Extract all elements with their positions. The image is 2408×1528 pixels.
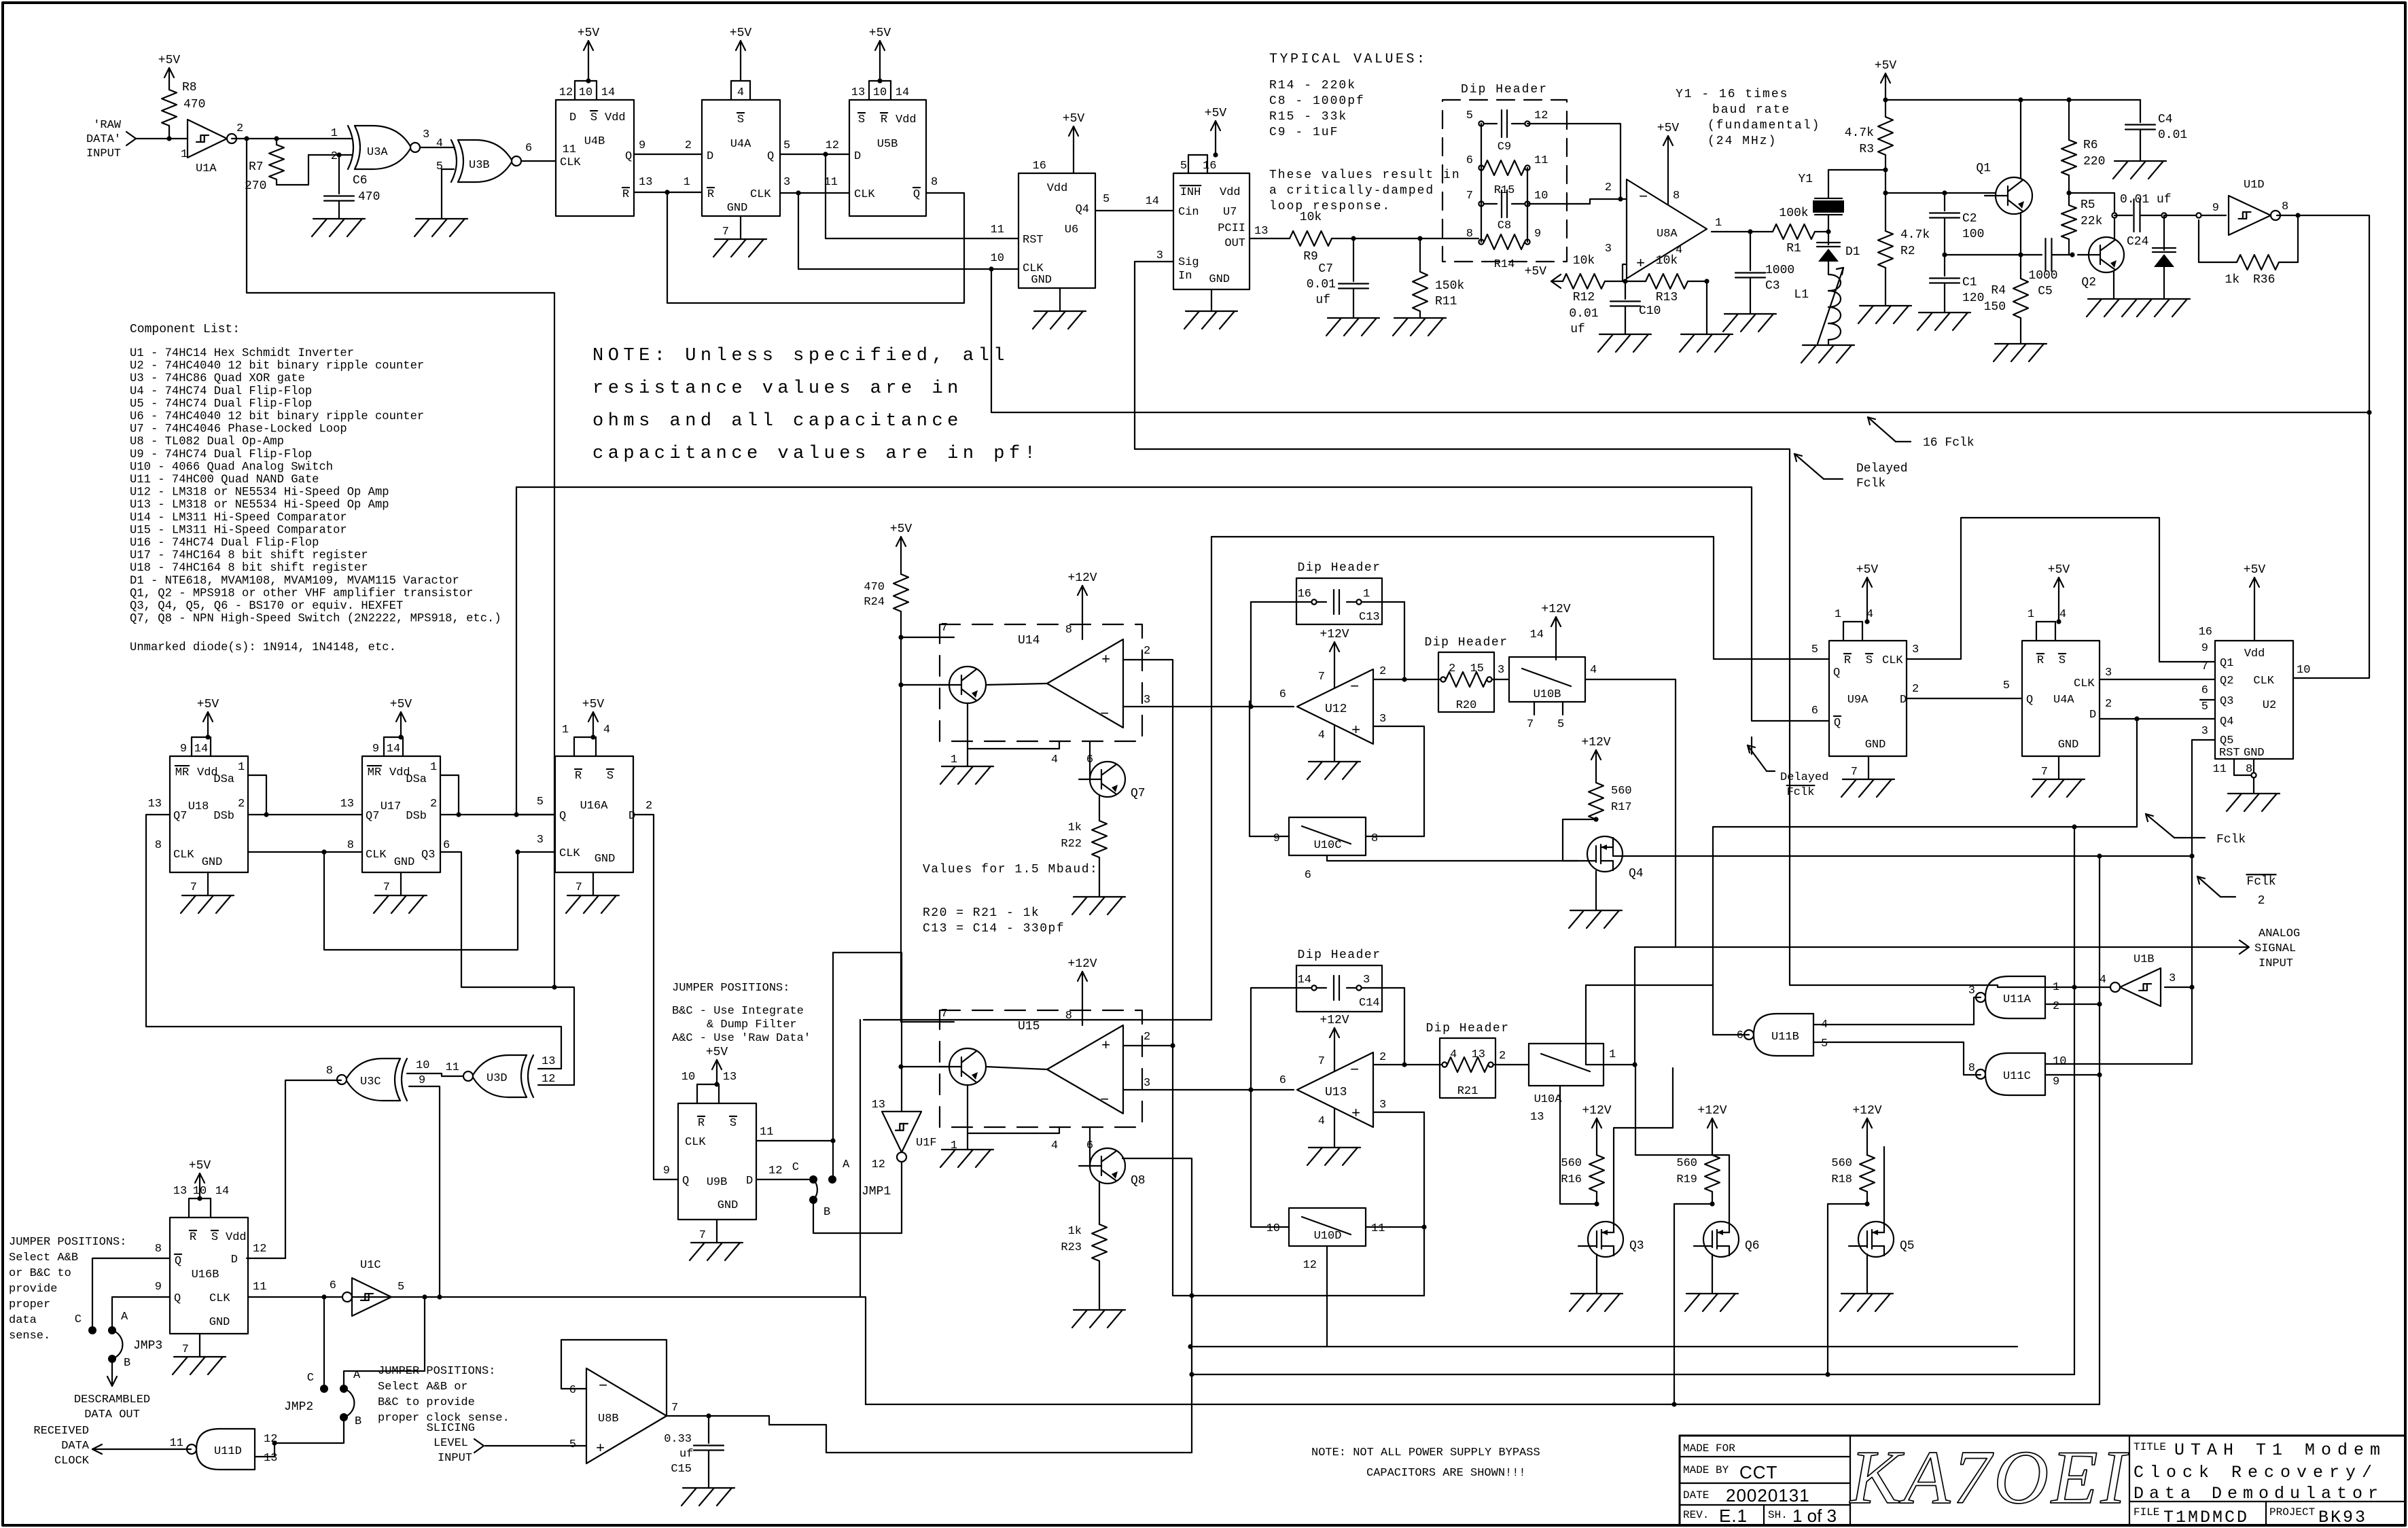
svg-text:Fclk: Fclk bbox=[1787, 786, 1815, 799]
pin 2 label U8A bbox=[1605, 181, 1612, 194]
svg-text:3: 3 bbox=[2201, 725, 2208, 738]
svg-text:14: 14 bbox=[601, 86, 615, 99]
svg-text:7: 7 bbox=[941, 1008, 948, 1020]
svg-text:−: − bbox=[599, 1378, 607, 1395]
ground (U13) bbox=[1307, 1148, 1360, 1165]
svg-text:1000: 1000 bbox=[2028, 269, 2057, 283]
crystal Y1 bbox=[1798, 170, 1844, 232]
svg-text:12: 12 bbox=[768, 1165, 782, 1177]
svg-text:5: 5 bbox=[569, 1438, 576, 1451]
svg-text:3: 3 bbox=[1605, 243, 1612, 255]
svg-text:C: C bbox=[75, 1313, 82, 1326]
label 5 (U16A Q) bbox=[537, 796, 544, 809]
label 3 (U14 out-) bbox=[1144, 694, 1254, 709]
svg-text:6: 6 bbox=[1279, 688, 1286, 701]
ground (C7) bbox=[1326, 318, 1379, 336]
wire Y1 top to R3/R2 node bbox=[1828, 169, 1885, 171]
wire U16A D to U9B Q bbox=[633, 815, 678, 1179]
label Delayed Fclk (trunk) bbox=[1794, 454, 1908, 491]
svg-text:R20 = R21 - 1k: R20 = R21 - 1k bbox=[923, 906, 1040, 920]
ground (U14 pin1) bbox=[940, 754, 993, 784]
svg-text:Q: Q bbox=[175, 1255, 181, 1268]
svg-text:Data Demodulator: Data Demodulator bbox=[2133, 1484, 2384, 1504]
svg-text:7: 7 bbox=[1527, 718, 1534, 731]
ground (U9B) bbox=[690, 1220, 743, 1260]
wire U14 base feed bbox=[901, 684, 949, 686]
svg-text:2: 2 bbox=[1144, 1031, 1150, 1044]
shift register U17 bbox=[340, 737, 450, 872]
svg-text:R20: R20 bbox=[1456, 699, 1477, 712]
wire U1A out to XOR U3A bbox=[232, 138, 352, 139]
label 3 (R20 out) bbox=[1498, 664, 1504, 677]
svg-text:13: 13 bbox=[542, 1055, 555, 1068]
svg-text:3: 3 bbox=[1363, 974, 1370, 987]
wire U16B Qbar to JMP3 C bbox=[92, 1258, 170, 1330]
wire Q-net to U6 RST bbox=[826, 154, 1019, 238]
wire U14 pin1 to pin4 bbox=[968, 741, 1059, 749]
svg-text:GND: GND bbox=[1865, 739, 1886, 751]
svg-text:U6 - 74HC4040 12 bit binary ri: U6 - 74HC4040 12 bit binary ripple count… bbox=[130, 410, 424, 423]
svg-text:10k: 10k bbox=[1656, 254, 1678, 268]
power +12V (U13) bbox=[1318, 1014, 1349, 1071]
svg-text:11: 11 bbox=[563, 143, 576, 156]
svg-text:3: 3 bbox=[537, 834, 544, 847]
label 2 (U14 out+) bbox=[1144, 645, 1150, 658]
xor gate U3A bbox=[331, 126, 429, 169]
svg-text:11: 11 bbox=[170, 1437, 183, 1450]
power +5V (U5B) bbox=[869, 26, 891, 84]
wire Q8 emitter to R23 bbox=[1099, 1182, 1100, 1224]
svg-text:R3: R3 bbox=[1859, 143, 1874, 156]
transistor Q8 bbox=[1079, 1148, 1146, 1188]
resistor R14 bbox=[1466, 228, 1541, 271]
label 6 (U14 pin6) bbox=[1086, 753, 1093, 766]
svg-text:13: 13 bbox=[723, 1071, 737, 1084]
note jumper positions (JMP1) bbox=[672, 982, 811, 1045]
svg-text:DATA OUT: DATA OUT bbox=[84, 1408, 140, 1421]
svg-text:R: R bbox=[707, 188, 714, 201]
svg-text:NOTE: Unless specified, all: NOTE: Unless specified, all bbox=[592, 346, 1009, 366]
power +5V (U17) bbox=[390, 698, 412, 740]
svg-text:uf: uf bbox=[1315, 294, 1330, 307]
label 4 (U12 gnd) bbox=[1318, 729, 1325, 742]
svg-text:Q3, Q4, Q5, Q6 - BS170 or equi: Q3, Q4, Q5, Q6 - BS170 or equiv. HEXFET bbox=[130, 600, 403, 613]
svg-text:220: 220 bbox=[2083, 155, 2105, 168]
capacitor C24 bbox=[2120, 193, 2172, 249]
svg-text:R4: R4 bbox=[1991, 284, 2006, 298]
svg-text:C24: C24 bbox=[2127, 235, 2148, 249]
junction R11 tap bbox=[1417, 236, 1422, 241]
svg-text:These values result in: These values result in bbox=[1269, 168, 1461, 182]
resistor R20 (zig) bbox=[1446, 672, 1487, 687]
svg-text:U12 - LM318 or NE5534 Hi-Speed: U12 - LM318 or NE5534 Hi-Speed Op Amp bbox=[130, 486, 389, 499]
svg-text:U11B: U11B bbox=[1771, 1031, 1799, 1044]
wire U8B minus loop bbox=[561, 1340, 667, 1416]
svg-text:4: 4 bbox=[2100, 974, 2106, 987]
svg-text:U10D: U10D bbox=[1314, 1230, 1342, 1243]
svg-text:U11D: U11D bbox=[214, 1445, 242, 1458]
svg-text:Q4: Q4 bbox=[1076, 203, 1089, 216]
svg-text:U6: U6 bbox=[1065, 224, 1078, 236]
switch U10A bbox=[1529, 1044, 1616, 1124]
power +12V (U10B) bbox=[1530, 603, 1571, 660]
svg-text:D: D bbox=[746, 1175, 753, 1188]
logo KA7OEI bbox=[1849, 1436, 2129, 1520]
svg-text:4: 4 bbox=[1318, 729, 1325, 742]
svg-text:2: 2 bbox=[236, 122, 243, 135]
svg-text:Q: Q bbox=[682, 1175, 689, 1188]
wire Q6 drain link bbox=[1635, 1065, 1729, 1223]
resistor R23 bbox=[1061, 1224, 1107, 1310]
svg-text:13: 13 bbox=[173, 1185, 187, 1198]
svg-text:2: 2 bbox=[1379, 665, 1386, 678]
wire Q6 source gnd bbox=[1712, 1254, 1713, 1294]
op-amp U8B bbox=[569, 1368, 678, 1463]
wire U10D left link bbox=[1251, 1090, 1289, 1227]
ground (U4A) bbox=[713, 216, 766, 257]
svg-text:Q8: Q8 bbox=[1131, 1174, 1146, 1188]
capacitor C1 bbox=[1930, 255, 1984, 313]
wire trunk y1501 bbox=[864, 1019, 1211, 1020]
transistor Q3 (MOSFET) bbox=[1578, 1222, 1644, 1257]
svg-text:R11: R11 bbox=[1435, 295, 1457, 308]
wire R24 down to U15 bbox=[901, 637, 954, 1022]
junction U14 base bbox=[898, 682, 903, 687]
svg-text:4: 4 bbox=[1590, 664, 1597, 677]
wire U11A pin1 wire bbox=[2045, 987, 2110, 988]
svg-text:+5V: +5V bbox=[1063, 112, 1085, 126]
svg-text:4: 4 bbox=[1051, 1139, 1058, 1152]
svg-text:Q1, Q2 - MPS918 or other VHF a: Q1, Q2 - MPS918 or other VHF amplifier t… bbox=[130, 587, 473, 600]
label pin7 U14 bbox=[941, 622, 948, 635]
svg-text:7: 7 bbox=[1318, 1055, 1325, 1068]
svg-text:U2 - 74HC4040 12 bit binary ri: U2 - 74HC4040 12 bit binary ripple count… bbox=[130, 360, 424, 373]
resistor R2 bbox=[1878, 228, 1930, 306]
junction V2/Fclk2 bbox=[2097, 853, 2102, 858]
inverter U1F bbox=[872, 1099, 937, 1171]
wire U8A plus input bbox=[1623, 264, 1627, 281]
power +5V (U16B) bbox=[189, 1159, 211, 1201]
svg-text:Component List:: Component List: bbox=[130, 323, 240, 336]
svg-text:Q: Q bbox=[559, 810, 566, 823]
svg-text:+12V: +12V bbox=[1581, 736, 1610, 749]
svg-text:270: 270 bbox=[245, 179, 266, 193]
wire Fclk trunk bbox=[1713, 719, 2137, 827]
svg-text:7: 7 bbox=[671, 1402, 678, 1415]
svg-text:+5V: +5V bbox=[1856, 563, 1879, 577]
svg-text:7: 7 bbox=[1851, 766, 1858, 779]
wire U18 CLK to U17 CLK bbox=[248, 851, 362, 853]
svg-text:Q: Q bbox=[625, 150, 632, 163]
wire U11A out bbox=[1974, 997, 1981, 1025]
svg-text:1: 1 bbox=[2028, 608, 2034, 621]
resistor R24 bbox=[864, 522, 912, 637]
ground (U8A pin4) bbox=[1680, 281, 1733, 352]
pll U7 bbox=[1156, 155, 1269, 289]
svg-text:C10: C10 bbox=[1639, 304, 1661, 318]
wire U9A Q left (delayed fclk) bbox=[1211, 537, 1829, 659]
wire Q4 drain trunk (Fclk/2) bbox=[1613, 838, 2192, 856]
svg-text:Fclk: Fclk bbox=[2216, 833, 2246, 847]
svg-text:baud rate: baud rate bbox=[1712, 103, 1790, 117]
svg-text:2: 2 bbox=[2105, 698, 2112, 711]
diode D1 (varactor) bbox=[1817, 232, 1860, 274]
junction Q5 gate trunk bbox=[1825, 1372, 1830, 1376]
wire U16A-Q to U9A trunk bbox=[516, 487, 1829, 721]
wire C13 right loop bbox=[1362, 601, 1404, 603]
svg-text:11: 11 bbox=[824, 176, 838, 189]
junction V2/pin2 bbox=[2097, 1001, 2102, 1006]
svg-text:DATA': DATA' bbox=[86, 133, 121, 146]
svg-text:R15 - 33k: R15 - 33k bbox=[1269, 110, 1347, 124]
wire JMP2 B to U11D bbox=[275, 1421, 344, 1443]
svg-text:6: 6 bbox=[2201, 684, 2208, 697]
svg-text:4: 4 bbox=[1051, 753, 1058, 766]
svg-text:SIGNAL: SIGNAL bbox=[2254, 942, 2296, 955]
svg-text:16: 16 bbox=[1298, 588, 1311, 601]
junction 1982 left bbox=[1188, 1344, 1192, 1349]
svg-text:D: D bbox=[707, 150, 713, 163]
junction rail R3 bbox=[1883, 97, 1888, 102]
ground (R22) bbox=[1072, 897, 1125, 914]
svg-text:3: 3 bbox=[1144, 694, 1150, 707]
wire R3 node down to R2 bbox=[1885, 170, 1886, 231]
junction Q1 base node bbox=[1883, 190, 1888, 195]
svg-text:L1: L1 bbox=[1794, 288, 1809, 302]
svg-text:S: S bbox=[590, 111, 597, 124]
wire R21 out to U10A bbox=[1493, 1064, 1529, 1065]
svg-text:KA7OEI: KA7OEI bbox=[1849, 1436, 2129, 1520]
svg-text:2: 2 bbox=[2258, 894, 2265, 908]
svg-text:11: 11 bbox=[991, 224, 1004, 236]
ground (R4) bbox=[1994, 344, 2047, 361]
svg-text:8: 8 bbox=[1968, 1062, 1975, 1075]
wire U15 emitter to pin1 bbox=[967, 1085, 968, 1136]
svg-text:150: 150 bbox=[1984, 300, 2006, 314]
resistor R17 bbox=[1581, 736, 1631, 819]
capacitor C5 bbox=[2028, 238, 2072, 298]
wire Q2 emitter bbox=[2113, 271, 2114, 299]
svg-text:R13: R13 bbox=[1656, 291, 1678, 304]
svg-text:−: − bbox=[1350, 1062, 1359, 1079]
junction U3C9/CLK line bbox=[437, 1294, 442, 1299]
svg-text:S: S bbox=[1866, 654, 1873, 667]
svg-text:D: D bbox=[569, 111, 576, 124]
svg-text:CAPACITORS ARE SHOWN!!!: CAPACITORS ARE SHOWN!!! bbox=[1366, 1467, 1526, 1480]
wire U14 pin6 to Q7 bbox=[1089, 741, 1091, 763]
dip header (R21) bbox=[1426, 1022, 1509, 1098]
pin 14 label U7 Cin bbox=[1146, 195, 1159, 208]
svg-text:+12V: +12V bbox=[1852, 1104, 1881, 1118]
label 16 Fclk bbox=[1868, 417, 1975, 450]
label 3 (U16A CLK) bbox=[537, 834, 544, 847]
svg-text:13: 13 bbox=[639, 176, 652, 189]
power +12V (U15) bbox=[1065, 957, 1097, 1025]
wire vertical A-jumper bbox=[832, 953, 834, 1179]
svg-text:SLICING: SLICING bbox=[427, 1422, 475, 1435]
wire U3C out to U16B D bbox=[247, 1080, 341, 1258]
junction U10D loop bbox=[1421, 1224, 1426, 1229]
svg-text:U10A: U10A bbox=[1534, 1093, 1563, 1106]
inductor L1 bbox=[1794, 268, 1843, 345]
svg-text:U4B: U4B bbox=[584, 135, 605, 148]
svg-text:8: 8 bbox=[931, 176, 938, 189]
svg-text:U16A: U16A bbox=[580, 800, 609, 813]
svg-text:8: 8 bbox=[1065, 1010, 1072, 1023]
wire trunk 1783 vertical bbox=[1211, 537, 1212, 1020]
svg-text:U3A: U3A bbox=[367, 146, 388, 159]
wire U2 Q5 (Fclk/2) bbox=[2045, 740, 2215, 1064]
svg-text:Delayed: Delayed bbox=[1856, 462, 1908, 476]
svg-text:12: 12 bbox=[264, 1433, 277, 1446]
wire U12 pin2 to R20 bbox=[1373, 679, 1443, 680]
svg-text:sense.: sense. bbox=[9, 1330, 50, 1343]
svg-text:RST: RST bbox=[2219, 747, 2240, 760]
wire R1 to varactor node bbox=[1815, 231, 1828, 232]
svg-text:3: 3 bbox=[2169, 972, 2176, 985]
svg-text:U15 - LM311 Hi-Speed Comparato: U15 - LM311 Hi-Speed Comparator bbox=[130, 524, 347, 537]
svg-text:5: 5 bbox=[537, 796, 544, 809]
svg-text:U14 - LM311 Hi-Speed Comparato: U14 - LM311 Hi-Speed Comparator bbox=[130, 512, 347, 525]
ground (C6) bbox=[312, 219, 365, 236]
svg-text:470: 470 bbox=[864, 581, 885, 594]
svg-text:U14: U14 bbox=[1018, 634, 1040, 647]
svg-text:Q6: Q6 bbox=[1745, 1239, 1760, 1253]
svg-text:C2: C2 bbox=[1962, 212, 1977, 226]
svg-text:U1C: U1C bbox=[360, 1259, 381, 1272]
resistor R5 bbox=[2061, 193, 2102, 255]
wire U10C loop bbox=[1250, 701, 1289, 836]
svg-text:14: 14 bbox=[194, 743, 208, 756]
resistor R12 bbox=[1525, 254, 1605, 336]
wire U3D out to U3C in bbox=[407, 1073, 462, 1076]
svg-text:6: 6 bbox=[1466, 154, 1473, 167]
svg-text:560: 560 bbox=[1676, 1157, 1697, 1170]
svg-text:10: 10 bbox=[2297, 664, 2310, 677]
svg-text:Dip Header: Dip Header bbox=[1461, 83, 1548, 96]
svg-text:12: 12 bbox=[559, 86, 573, 99]
svg-text:4: 4 bbox=[1318, 1115, 1325, 1128]
svg-text:100k: 100k bbox=[1779, 207, 1808, 220]
svg-text:8: 8 bbox=[155, 1243, 162, 1256]
svg-text:GND: GND bbox=[209, 1316, 230, 1329]
svg-text:4: 4 bbox=[436, 137, 443, 150]
wire Q7 emitter to R22 bbox=[1099, 795, 1100, 821]
svg-text:14: 14 bbox=[387, 743, 400, 756]
svg-text:U8 - TL082 Dual Op-Amp: U8 - TL082 Dual Op-Amp bbox=[130, 436, 284, 448]
svg-text:Vdd: Vdd bbox=[896, 113, 917, 126]
svg-text:R: R bbox=[881, 113, 887, 126]
svg-text:1: 1 bbox=[1363, 588, 1370, 601]
svg-text:U9A: U9A bbox=[1847, 694, 1869, 707]
label 3 (U12 plus) bbox=[1379, 713, 1386, 726]
junction C6 top bbox=[336, 152, 341, 157]
wire U4A2 D to U2 Q4 bbox=[2100, 718, 2215, 719]
jumper JMP1 bbox=[809, 1158, 891, 1219]
svg-text:U11C: U11C bbox=[2003, 1070, 2031, 1083]
svg-text:13: 13 bbox=[1530, 1111, 1544, 1124]
svg-text:7: 7 bbox=[1466, 190, 1473, 202]
svg-text:U5B: U5B bbox=[877, 138, 898, 151]
ground (L1) bbox=[1801, 345, 1854, 363]
svg-text:GND: GND bbox=[727, 202, 748, 215]
svg-text:2: 2 bbox=[238, 798, 245, 811]
svg-text:D: D bbox=[628, 810, 635, 823]
svg-text:R: R bbox=[622, 188, 629, 201]
wire C13 right to node bbox=[1404, 602, 1405, 679]
inverter U1D bbox=[2212, 179, 2288, 235]
svg-text:Q7, Q8 - NPN High-Speed Switch: Q7, Q8 - NPN High-Speed Switch (2N2222, … bbox=[130, 613, 501, 626]
titleblock project bbox=[2269, 1506, 2367, 1527]
label 6 (U13 out) bbox=[1279, 1074, 1286, 1087]
ground (U3B pin5) bbox=[414, 219, 467, 236]
svg-text:Y1: Y1 bbox=[1798, 173, 1813, 186]
nand gate U11A bbox=[1968, 976, 2059, 1018]
svg-text:DSa: DSa bbox=[406, 773, 427, 786]
wire U1B in bbox=[2165, 987, 2192, 988]
wire U17 DSa loop bbox=[440, 775, 459, 815]
wire U6 Q4 to U7 Cin bbox=[1095, 210, 1173, 211]
ground (C4) bbox=[2113, 161, 2166, 179]
wire integrate select jog bbox=[1586, 984, 1713, 986]
label 1 (U15) bbox=[951, 1139, 957, 1152]
power +5V (U4B) bbox=[578, 26, 600, 84]
label 3 (U15 out-) bbox=[1144, 1077, 1254, 1092]
junction R19/Q6 gate bbox=[1710, 1201, 1714, 1206]
svg-text:2: 2 bbox=[1605, 181, 1612, 194]
svg-text:R: R bbox=[575, 770, 582, 783]
svg-text:INPUT: INPUT bbox=[2259, 957, 2293, 970]
svg-text:proper: proper bbox=[9, 1298, 50, 1311]
svg-text:E.1: E.1 bbox=[1719, 1506, 1748, 1526]
svg-text:Q5: Q5 bbox=[1900, 1239, 1915, 1253]
flip-flop U5B bbox=[824, 81, 938, 216]
svg-text:4.7k: 4.7k bbox=[1900, 228, 1930, 242]
ground (U6) bbox=[1033, 288, 1086, 329]
svg-text:GND: GND bbox=[2244, 747, 2265, 760]
svg-text:R: R bbox=[698, 1117, 705, 1130]
junction U9B CLK / A bbox=[830, 1138, 835, 1143]
svg-text:R24: R24 bbox=[864, 596, 885, 609]
arrow descrambled out bbox=[107, 1363, 117, 1386]
svg-text:R12: R12 bbox=[1573, 291, 1595, 304]
svg-text:Sig: Sig bbox=[1178, 256, 1199, 269]
svg-text:1: 1 bbox=[331, 127, 338, 140]
inverter U1C (bubble-in) bbox=[330, 1259, 404, 1316]
resistor R19 bbox=[1676, 1104, 1727, 1204]
svg-text:+5V: +5V bbox=[1875, 59, 1897, 73]
svg-text:REV.: REV. bbox=[1683, 1509, 1709, 1521]
svg-text:INH: INH bbox=[1180, 186, 1201, 199]
junction U4B R net bbox=[665, 190, 669, 194]
wire U3B out to U4B CLK bbox=[521, 160, 556, 162]
svg-text:16: 16 bbox=[1203, 160, 1216, 173]
wire U8B out bbox=[667, 1415, 769, 1417]
svg-text:JMP2: JMP2 bbox=[284, 1400, 313, 1414]
wire U3C pin9 down bbox=[409, 1086, 440, 1297]
svg-text:Clock Recovery/: Clock Recovery/ bbox=[2133, 1463, 2378, 1482]
svg-text:14: 14 bbox=[1298, 974, 1311, 987]
svg-text:CLK: CLK bbox=[1882, 654, 1903, 667]
wire R20 out to U10B bbox=[1492, 679, 1509, 680]
wire C24 to U1D input bbox=[2164, 215, 2226, 216]
svg-text:+: + bbox=[1351, 722, 1360, 739]
wire U1C out to JMP2 A bbox=[344, 1297, 425, 1389]
svg-text:7: 7 bbox=[722, 226, 729, 238]
svg-text:2: 2 bbox=[1912, 683, 1919, 696]
label 5 (U2 Q4) bbox=[2201, 700, 2208, 713]
svg-text:B: B bbox=[824, 1206, 830, 1219]
